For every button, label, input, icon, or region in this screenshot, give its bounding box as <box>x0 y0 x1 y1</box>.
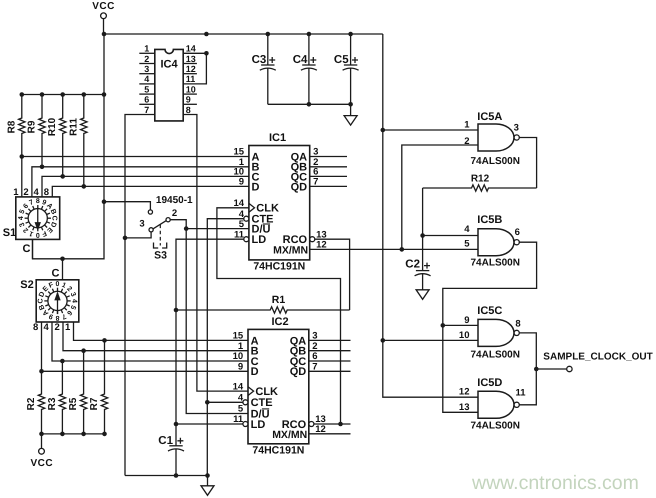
svg-text:11: 11 <box>515 388 526 399</box>
svg-text:VCC: VCC <box>92 1 115 12</box>
wire IC1 CLK from IC2 RCO <box>217 208 341 424</box>
svg-text:IC5C: IC5C <box>477 305 502 317</box>
svg-text:4: 4 <box>44 322 50 333</box>
NAND gate IC5B <box>478 229 514 256</box>
svg-text:IC5D: IC5D <box>477 377 502 389</box>
wire IC1 LD net <box>174 239 244 445</box>
wire A (S1.1 / R8 / IC1.A) <box>22 157 249 197</box>
svg-text:C: C <box>23 243 31 255</box>
capacitor C5 <box>350 34 352 65</box>
ground below C5 <box>350 104 352 115</box>
svg-text:9: 9 <box>464 315 469 326</box>
svg-text:7: 7 <box>144 105 149 115</box>
svg-text:14: 14 <box>233 381 244 392</box>
NAND gate IC5C <box>478 319 514 346</box>
capacitor C3 <box>267 34 269 65</box>
svg-text:C: C <box>51 216 58 221</box>
svg-text:4: 4 <box>144 74 149 84</box>
VCC terminal top <box>92 1 115 34</box>
svg-text:8: 8 <box>33 322 38 333</box>
wire IC4 pin8 (to IC2 CLK) <box>183 115 248 392</box>
svg-text:3: 3 <box>139 219 144 230</box>
svg-text:C2: C2 <box>405 259 420 271</box>
svg-text:4: 4 <box>238 393 244 404</box>
resistor R12 <box>423 174 537 192</box>
svg-text:VCC: VCC <box>30 458 53 469</box>
svg-text:1: 1 <box>144 44 149 54</box>
svg-text:2: 2 <box>144 54 149 64</box>
svg-text:1: 1 <box>65 322 71 333</box>
wire IC4 pin14/11 to VCC <box>183 51 209 84</box>
wire VCC left drop to S1/S2 common <box>22 34 107 261</box>
svg-text:10: 10 <box>186 84 196 94</box>
svg-text:3: 3 <box>144 64 149 74</box>
capacitor C4 <box>308 34 310 65</box>
svg-text:R12: R12 <box>471 174 490 185</box>
svg-text:R11: R11 <box>68 118 79 136</box>
svg-text:6: 6 <box>515 227 520 238</box>
svg-text:4: 4 <box>70 299 77 303</box>
svg-text:74HC191N: 74HC191N <box>252 445 304 457</box>
IC4 <box>139 44 197 121</box>
svg-text:IC2: IC2 <box>271 316 288 328</box>
svg-text:6: 6 <box>144 95 149 105</box>
svg-text:4: 4 <box>464 224 470 235</box>
wire ground rail bottom <box>125 473 208 478</box>
svg-text:0: 0 <box>36 231 40 238</box>
svg-text:14: 14 <box>186 44 196 54</box>
svg-text:S3: S3 <box>154 249 167 261</box>
svg-text:R9: R9 <box>27 120 38 133</box>
svg-text:R1: R1 <box>272 294 286 306</box>
svg-text:9: 9 <box>239 177 244 188</box>
wire C (S1.4 / R10 / IC1.C) <box>42 176 249 197</box>
svg-text:74ALS00N: 74ALS00N <box>471 420 520 431</box>
wire cap bottoms <box>268 102 353 107</box>
svg-text:D: D <box>251 366 259 378</box>
svg-text:R8: R8 <box>6 120 17 133</box>
wire IC5B output to IC5C.9 / IC5D.13 <box>441 242 537 412</box>
svg-text:8: 8 <box>186 105 191 115</box>
wire VCC right drop (IC5A.1 / IC5C.10 / IC5D.12) <box>381 34 479 397</box>
svg-text:13: 13 <box>459 402 470 413</box>
wire IC5C output to out node <box>519 333 536 369</box>
wire IC1 MX/MN to IC5A.2/IC5B.5 <box>310 247 478 252</box>
wire IC1 CTE (ground net) <box>205 219 244 478</box>
svg-text:13: 13 <box>186 54 196 64</box>
svg-text:74ALS00N: 74ALS00N <box>471 258 520 269</box>
resistor R10 <box>47 92 66 179</box>
svg-text:QD: QD <box>290 366 307 378</box>
svg-text:7: 7 <box>312 362 317 373</box>
svg-text:QD: QD <box>291 181 308 193</box>
svg-text:74HC191N: 74HC191N <box>253 261 305 273</box>
wire IC4 pin7 (to S3 and ground) <box>125 115 155 476</box>
svg-text:12: 12 <box>186 64 196 74</box>
svg-text:R2: R2 <box>26 397 37 410</box>
rotary switch S2 <box>20 259 79 333</box>
resistor R11 <box>68 92 87 189</box>
svg-text:74ALS00N: 74ALS00N <box>471 350 520 361</box>
ground bottom center <box>207 476 209 486</box>
wire resistor bottom rail <box>42 433 105 435</box>
resistor R3 <box>47 359 66 437</box>
svg-text:S1: S1 <box>3 227 16 239</box>
svg-text:R10: R10 <box>47 117 58 136</box>
svg-text:MX/MN: MX/MN <box>272 429 307 441</box>
svg-text:5: 5 <box>238 404 244 415</box>
svg-text:11: 11 <box>233 414 244 425</box>
resistor R2 <box>26 369 45 436</box>
wire C2 (S2.4 / R3 / IC2.C) <box>52 322 248 361</box>
resistor R9 <box>27 92 46 169</box>
wire A2 (S2.1 / R7 / IC2.A) <box>74 322 249 340</box>
IC1 74HC191N <box>249 146 310 260</box>
svg-text:2: 2 <box>55 322 60 333</box>
svg-text:C: C <box>38 298 45 303</box>
svg-text:R3: R3 <box>47 397 58 410</box>
svg-text:2: 2 <box>464 136 469 147</box>
wire IC5A output to R12 <box>519 138 536 189</box>
svg-text:SAMPLE_CLOCK_OUT: SAMPLE_CLOCK_OUT <box>543 352 652 363</box>
svg-text:LD: LD <box>251 419 266 431</box>
wire IC5D output to out node <box>519 369 536 405</box>
rotary switch S1 <box>3 187 60 259</box>
NAND gate IC5D <box>478 391 514 418</box>
svg-text:C5: C5 <box>334 54 349 66</box>
svg-text:1: 1 <box>13 187 19 198</box>
svg-text:3: 3 <box>514 122 519 133</box>
resistor R1 <box>176 294 350 313</box>
wire B2 (S2.2 / R5 / IC2.B) <box>63 322 248 351</box>
svg-text:5: 5 <box>464 239 470 250</box>
svg-text:0: 0 <box>56 281 60 288</box>
wire D2 (S2.8 / R2 / IC2.D) <box>42 322 249 371</box>
svg-text:4: 4 <box>18 216 25 220</box>
svg-text:8: 8 <box>55 314 59 321</box>
svg-text:9: 9 <box>186 95 191 105</box>
ground below C2 <box>422 289 424 291</box>
svg-text:CLK: CLK <box>255 386 278 398</box>
svg-text:IC5A: IC5A <box>477 111 502 123</box>
svg-text:LD: LD <box>252 234 267 246</box>
svg-text:C: C <box>52 268 60 280</box>
svg-text:2: 2 <box>23 187 28 198</box>
svg-text:8: 8 <box>515 318 520 329</box>
svg-text:5: 5 <box>144 84 149 94</box>
VCC terminal bottom <box>30 434 53 469</box>
svg-text:12: 12 <box>459 387 470 398</box>
svg-text:1: 1 <box>464 120 470 131</box>
svg-text:D: D <box>252 181 260 193</box>
node SAMPLE_CLOCK_OUT <box>534 352 653 372</box>
svg-text:R7: R7 <box>89 397 100 410</box>
wire D (S1.8 / R11 / IC1.D) <box>52 186 249 197</box>
svg-text:S2: S2 <box>20 279 33 291</box>
wire IC1 D/U from S3 <box>184 226 249 413</box>
resistor R5 <box>68 348 87 436</box>
svg-text:7: 7 <box>313 177 318 188</box>
svg-text:8: 8 <box>44 187 49 198</box>
svg-text:R5: R5 <box>68 397 79 410</box>
NAND gate IC5A <box>478 124 514 151</box>
svg-text:IC1: IC1 <box>269 132 286 144</box>
svg-text:4: 4 <box>34 187 40 198</box>
svg-text:10: 10 <box>459 330 470 341</box>
wire IC5A.2 riser <box>402 145 478 249</box>
svg-text:11: 11 <box>186 74 196 84</box>
resistor R7 <box>89 338 108 436</box>
wire VCC rail <box>102 32 383 37</box>
capacitor C1 <box>175 444 177 447</box>
wire IC1 RCO to R1 <box>314 239 349 310</box>
IC2 74HC191N <box>248 329 309 443</box>
svg-text:74ALS00N: 74ALS00N <box>471 156 520 167</box>
svg-text:C3: C3 <box>252 54 267 66</box>
wire IC2 MX/MN stub <box>309 433 351 435</box>
wire R12 to IC5B.4 / C2 <box>420 188 478 270</box>
svg-text:IC5B: IC5B <box>477 214 502 226</box>
svg-text:IC4: IC4 <box>160 59 178 71</box>
svg-text:MX/MN: MX/MN <box>273 245 308 257</box>
svg-text:8: 8 <box>36 198 40 205</box>
capacitor C2 <box>422 269 424 271</box>
switch S3 (19450-1) <box>104 195 193 262</box>
wire B (S1.2 / R9 / IC1.B) <box>32 167 249 197</box>
svg-text:9: 9 <box>238 362 243 373</box>
svg-text:C4: C4 <box>293 54 308 66</box>
svg-text:C1: C1 <box>158 435 173 447</box>
svg-text:2: 2 <box>172 208 177 219</box>
wire IC2 RCO stub <box>314 422 351 427</box>
svg-text:CTE: CTE <box>251 397 273 409</box>
resistor R8 <box>6 92 25 159</box>
svg-text:www.cntronics.com: www.cntronics.com <box>471 472 639 494</box>
svg-text:19450-1: 19450-1 <box>156 195 193 206</box>
